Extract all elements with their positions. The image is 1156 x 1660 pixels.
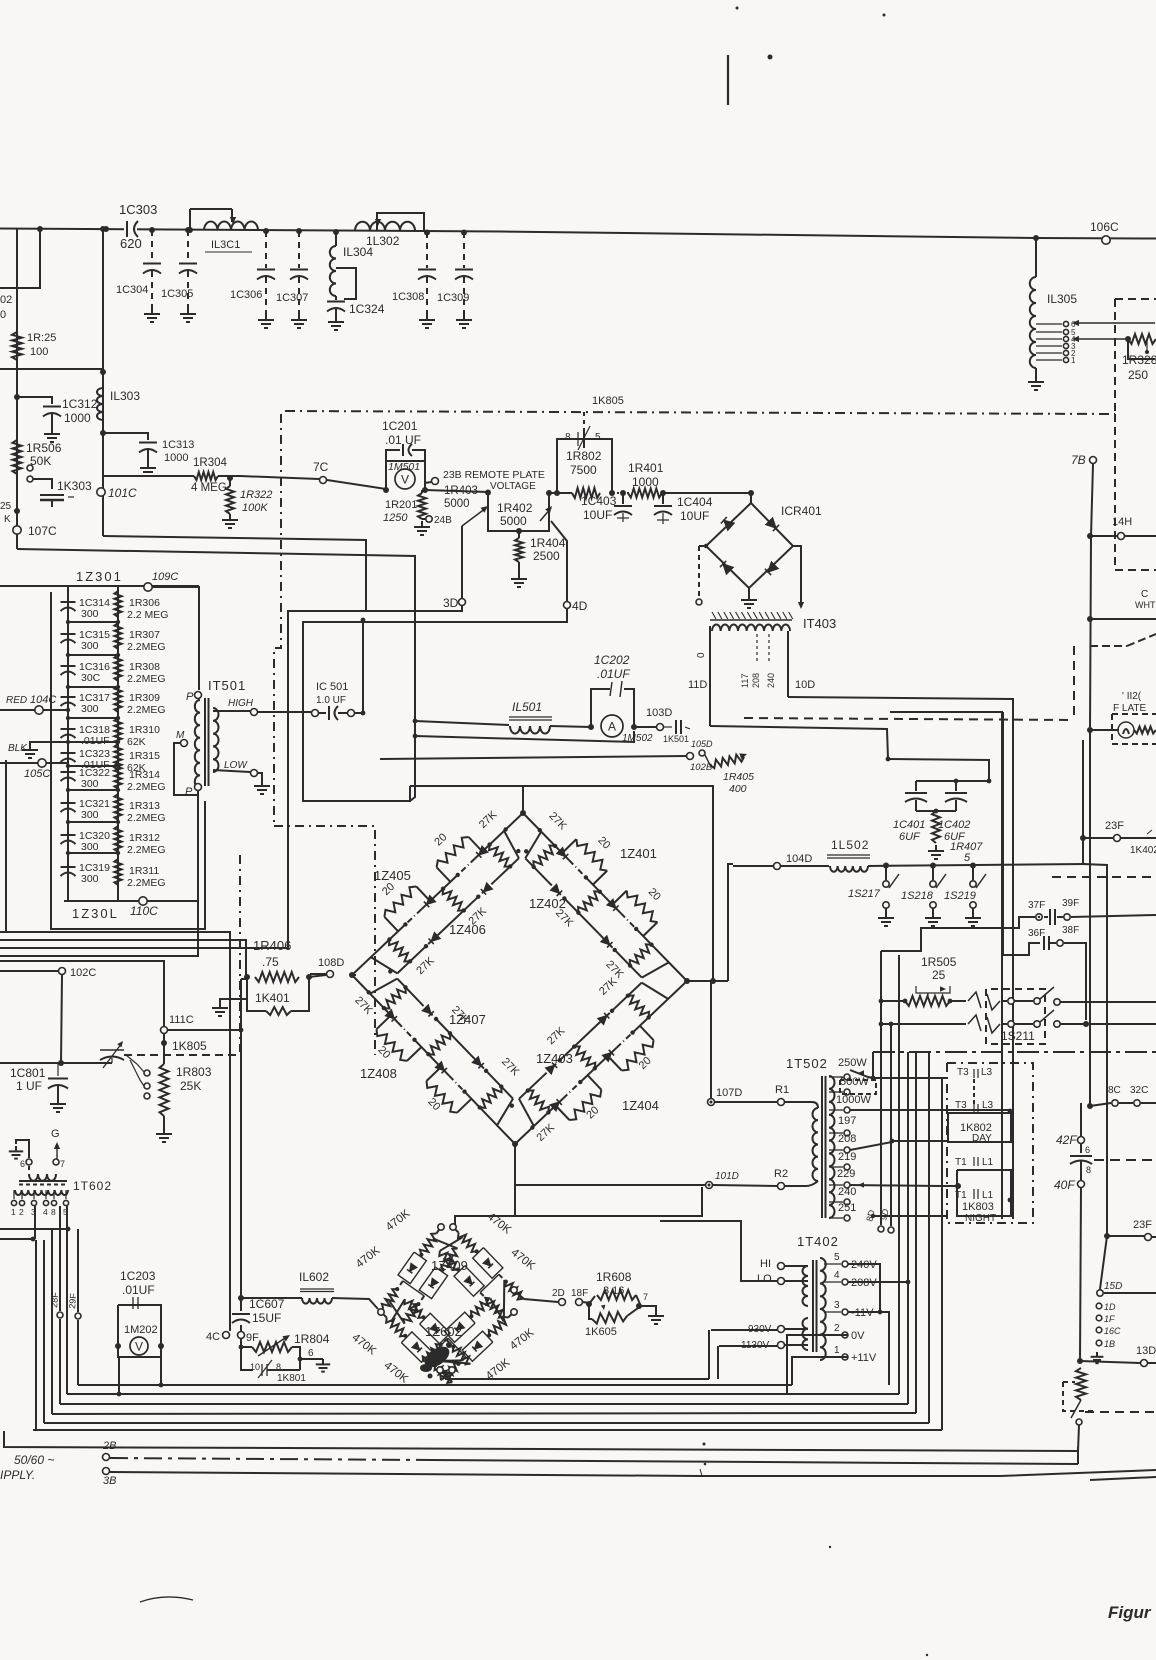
page speck [703,1443,929,1657]
diode ICR401 d4 [765,562,778,575]
wire diamond bottom [514,1144,516,1216]
wire 1T602 core [19,1181,67,1185]
wire main y493b [549,492,572,494]
svg-text:1C401: 1C401 [893,819,925,831]
svg-text:104D: 104D [786,853,812,865]
wire cap box [916,779,991,791]
wire 8C line [1090,1100,1156,1106]
wire y476 to 7C [240,476,386,489]
terminal R2 [774,1168,788,1190]
capacitor 1C316 [61,661,111,684]
capacitor 1C312 [43,397,98,428]
svg-text:1.0 UF: 1.0 UF [316,695,346,706]
wire 23F low [1107,1219,1156,1241]
svg-text:3B: 3B [103,1475,116,1487]
svg-text:1000: 1000 [164,452,188,464]
resistor 1R323 [12,332,56,360]
wire 1C324 bypass [336,268,356,299]
wire left vert x103 [102,229,104,433]
wire 930V riser [708,1330,710,1379]
wire 42F riser [1080,1103,1082,1136]
terminal 1T502 tap 229 [829,1168,855,1188]
diode ICR401 d3 [720,561,733,574]
capacitor 1K501 [663,720,690,744]
wire vert x942 [941,1078,943,1430]
svg-text:C: C [1141,589,1148,600]
resistor 1R407 [932,811,983,864]
wire corner 2B [1077,1447,1079,1464]
svg-text:3.16: 3.16 [603,1285,624,1297]
junction dot [1080,835,1086,841]
wire ladder rung [68,852,118,854]
label 1Z406 [449,922,486,937]
svg-text:1R505: 1R505 [921,955,957,969]
wire 37F down [880,951,882,1001]
label 470K [508,1326,537,1352]
potentiometer 1R506 [13,440,62,474]
ground 1R322 [222,514,238,528]
terminal 37F [1028,900,1045,920]
svg-text:1L502: 1L502 [831,838,869,852]
wire vert x1083 [1083,740,1107,1289]
junction dot [1083,1021,1089,1027]
wire 208V link [848,1280,910,1285]
svg-text:105D: 105D [691,739,713,749]
capacitor 1C401 [905,793,927,811]
svg-text:0: 0 [0,309,6,321]
terminal 40F [1054,1178,1085,1192]
trimmer 1K801 [241,1347,306,1384]
resistor bleeder [1076,1368,1086,1400]
svg-text:1M202: 1M202 [124,1324,158,1336]
svg-text:2500: 2500 [533,549,560,563]
wire -11V link [848,1310,889,1385]
junction dot [66,653,120,657]
meter 1M202 box [118,1298,161,1357]
ground 1S218 [925,912,941,926]
terminal 1T502 tap 240 [829,1186,856,1205]
svg-text:250: 250 [1128,368,1148,382]
terminal 1T502 tap 219 [829,1151,856,1170]
terminal LO [757,1273,808,1285]
terminal M [176,730,188,747]
wire 1K805 dashed bus [285,395,1115,414]
svg-text:1Z409: 1Z409 [431,1258,468,1273]
wire dashed stub 1C309 [463,232,465,268]
svg-text:2B: 2B [102,1440,116,1452]
svg-text:1R201: 1R201 [385,499,417,511]
wire 109C to P [152,587,199,690]
capacitor 1C324 [327,296,385,316]
svg-text:2.2MEG: 2.2MEG [127,704,166,716]
wire 38F out [1064,943,1086,1020]
terminal 103D [646,707,672,731]
label 1Z405 [374,868,411,883]
label 1S219 [944,890,976,902]
inductor IL302 [355,222,415,231]
svg-text:1R311: 1R311 [129,865,159,877]
capacitor 1C404 [654,493,713,524]
svg-text:1C201: 1C201 [382,419,418,433]
wire 39F out [1071,915,1156,917]
resistor 1K605 [585,1304,638,1338]
junction dot [1087,533,1093,1109]
svg-text:1R304: 1R304 [193,457,227,469]
junction dot [660,490,666,496]
wire 2B [110,1458,1078,1464]
terminal 1T602 tap 4 [43,1190,49,1217]
svg-text:62K: 62K [127,736,146,748]
svg-text:240: 240 [838,1186,856,1198]
svg-text:1C305: 1C305 [161,288,193,300]
svg-text:IL3C1: IL3C1 [211,239,240,251]
wire 3D down [0,606,462,948]
junction dot [296,228,302,234]
wire main y493d [663,492,751,494]
transformer 1T602 primary [15,1190,68,1195]
junction dot [37,226,43,232]
wire y369 bus [0,368,103,370]
svg-text:1R803: 1R803 [176,1065,212,1079]
wire 10D [788,697,1013,1219]
terminal 1T602 tap 8 [51,1190,57,1217]
wire sd right out [517,1293,558,1302]
svg-text:1Z408: 1Z408 [360,1066,397,1081]
resistor 1R404 [515,531,566,563]
terminal RED 104C [0,694,70,714]
terminal 1T402 tap 5 [824,1252,877,1271]
wire LO feed [660,1221,777,1281]
svg-text:6: 6 [20,1159,25,1169]
wire 0V link [787,1335,848,1393]
svg-text:BLK: BLK [8,743,28,754]
svg-text:1K605: 1K605 [585,1326,617,1338]
svg-text:T3: T3 [957,1067,969,1078]
terminal 23B [425,478,439,485]
svg-text:R2: R2 [774,1168,788,1180]
junction dot [955,1183,961,1189]
junction dot [66,740,120,744]
resistor 1R328 [1128,334,1156,359]
label 1C306 [230,289,262,301]
wire 10Db [890,712,1002,1219]
wire 8D line [871,1214,947,1218]
wire diamond top [523,786,713,981]
svg-text:5: 5 [964,852,971,864]
terminal 8D 9D [864,1207,894,1233]
svg-text:8: 8 [565,432,571,443]
terminal 101D [706,1171,739,1189]
svg-text:10UF: 10UF [583,508,612,522]
junction dot [66,851,120,855]
svg-text:50K: 50K [30,454,51,468]
terminal 7B [1071,453,1097,467]
junction dot [14,508,20,514]
junction dot [586,1301,592,1307]
terminal 107D [708,1087,743,1106]
svg-text:VOLTAGE: VOLTAGE [490,481,536,492]
wire ladder box [51,592,205,929]
junction dot [58,1060,64,1066]
resistor 1R315 [114,744,160,774]
wire 1C201 loop [386,450,425,461]
svg-text:1Z403: 1Z403 [536,1051,573,1066]
wire 104D to coil [781,865,829,867]
junction dot [930,863,936,869]
varistor network 1Z602 a [381,1299,471,1383]
label 1Z602 [425,1324,462,1339]
wire 1K805 stub [583,412,585,430]
svg-text:4: 4 [43,1207,48,1217]
wire y726 line [415,721,509,725]
svg-text:+11V: +11V [851,1352,877,1364]
svg-text:1Z602: 1Z602 [425,1324,462,1339]
svg-text:36F: 36F [1028,928,1045,939]
terminal 1T402 tap 4 [824,1270,877,1289]
wire bus L5 [44,1422,929,1424]
wire tap500 dashed box [840,1080,876,1094]
capacitor 1C501 [312,681,355,720]
terminal BLK 105C [0,743,68,780]
label 1T402 [797,1234,839,1249]
svg-text:1R405: 1R405 [723,771,754,783]
potentiometer 1R402 arrow [540,506,552,521]
svg-text:1Z402: 1Z402 [529,896,566,911]
label 1C401 [893,819,925,843]
terminal 1T602 tap 2 [19,1190,25,1217]
wire bus L2 [67,1393,899,1395]
capacitor 1C203 [120,1269,156,1312]
wire 1K805 dash [124,1039,238,1055]
capacitor 1C309 [455,270,473,315]
inductor IL305 [1030,238,1036,368]
svg-text:M: M [176,730,185,741]
wire x17 bottom [16,534,18,549]
svg-text:NIGHT: NIGHT [965,1213,996,1224]
terminal 102D [687,753,713,774]
svg-text:37F: 37F [1028,900,1045,911]
wire vert x52 [51,1230,53,1414]
svg-text:1C309: 1C309 [437,292,469,304]
terminal sd top [438,1224,456,1230]
wire vert x44 [43,1240,45,1423]
varistor network 1Z409 b [439,1227,522,1318]
svg-text:1000: 1000 [632,475,659,489]
wire dash linkage c [239,855,241,1052]
svg-text:1C404: 1C404 [677,495,713,509]
svg-text:1D: 1D [1104,1302,1116,1312]
wire tap3 drop [33,1206,35,1430]
terminal 29F [67,1292,81,1319]
svg-text:13D: 13D [1136,1345,1156,1357]
rectifier ICR401 [706,503,822,588]
capacitor 1C322 [61,767,111,790]
wire dash box top [1052,876,1156,878]
wire sd bottom down [446,1370,709,1379]
svg-text:5000: 5000 [500,514,527,528]
svg-text:4C: 4C [206,1331,220,1343]
label 50/60 [0,1453,54,1482]
svg-text:1R308: 1R308 [129,661,160,673]
wire dash linkage b [274,826,375,1055]
svg-text:300: 300 [81,778,99,790]
junction dot [185,227,191,233]
label 1Z402 [529,896,566,911]
terminal 24B [422,515,452,526]
svg-text:107D: 107D [716,1087,742,1099]
svg-text:WHT: WHT [1135,600,1156,610]
svg-text:251: 251 [838,1202,856,1214]
ground 1C801 [50,1098,66,1112]
svg-text:6: 6 [308,1348,314,1359]
label 1C305 [161,288,193,300]
terminal 1T602 tap 3 [31,1190,37,1217]
wire y1063 [0,1062,112,1064]
svg-text:1C307: 1C307 [276,292,308,304]
meter 1M501 [395,469,415,489]
junction dot [424,230,430,236]
terminal IL305 tap 2 [1036,349,1076,358]
wire P down [0,795,198,956]
resistor 1R309 [114,686,165,716]
svg-text:LO: LO [757,1273,772,1285]
wire y1052 bus [873,1051,1156,1053]
diode ICR401 d2 [766,518,779,531]
relay 1K802 box [948,1113,1011,1144]
junction dot [100,369,106,375]
potentiometer 1R403 arrow [462,506,488,526]
svg-text:101D: 101D [715,1171,739,1182]
ground 1T602 6 [9,1140,29,1159]
transformer 1T502 secondary [829,1076,835,1218]
capacitor 1C307 [290,270,308,315]
resistor 1R310 [114,718,160,748]
svg-text:.75: .75 [262,955,279,969]
svg-text:1K401: 1K401 [255,991,290,1005]
ground 1R804 [300,1359,330,1372]
svg-text:23F: 23F [1105,820,1124,832]
svg-text:7C: 7C [313,460,329,474]
wire ladder rung [68,621,118,623]
resistor 1R308 [114,655,165,685]
svg-text:1Z405: 1Z405 [374,868,411,883]
wire 2B up [1077,1447,1079,1464]
wire 1T501 core [205,698,209,786]
svg-text:23B REMOTE PLATE: 23B REMOTE PLATE [443,469,545,481]
wire vert x60a [59,1206,61,1311]
relay 1K401 box [247,977,309,1015]
wire cap join [916,809,956,814]
svg-text:1R406: 1R406 [253,938,291,953]
svg-text:1R804: 1R804 [294,1332,330,1346]
label 11D [688,679,707,691]
junction dot [66,788,120,792]
terminal sd left [378,1309,384,1315]
terminal 1T502 tap 208 [829,1133,856,1153]
svg-text:IT403: IT403 [803,616,836,631]
lamp box dashed [1112,714,1156,744]
potentiometer 1R804 [241,1332,330,1359]
wire nest b [0,940,246,977]
wire right seg [1090,1477,1156,1480]
svg-text:4: 4 [834,1270,840,1281]
svg-text:2.2MEG: 2.2MEG [127,781,166,793]
wire bus L6 [33,1429,942,1431]
terminal 1R803 taps [127,1052,150,1099]
svg-text:102C: 102C [70,967,96,979]
label 1M501 [388,461,420,473]
terminal 109C [144,571,179,591]
svg-text:40F: 40F [1054,1178,1075,1192]
wire vert x1086 [1085,460,1087,864]
transformer 1T403 top winding [712,624,790,631]
wire ladder rung [68,686,118,688]
label 8C 32C [1108,1085,1148,1096]
terminal 1B [1096,1339,1115,1349]
junction dot [149,227,155,233]
wire tap208 link [850,1142,892,1150]
junction dot [710,978,716,984]
capacitor 42F-40F [1070,1144,1092,1180]
wire 250W cross [873,1077,947,1079]
svg-text:HI: HI [760,1258,771,1270]
ground 1C313 [140,462,156,476]
terminal 108D [310,957,356,978]
capacitor 1C203 sym [130,1297,143,1309]
capacitor 1C303 [119,202,157,251]
wire vert x891 [890,1024,892,1226]
label 1Z404 [622,1098,659,1113]
svg-text:4 MEG: 4 MEG [191,482,227,494]
label 470K [485,1211,514,1237]
spark gap row2 [950,1015,1007,1033]
wire 1130V riser [717,1346,719,1379]
resistor 1R405 [705,753,754,795]
svg-text:1C304: 1C304 [116,284,148,296]
svg-text:.01UF: .01UF [597,667,630,681]
terminal IL305 tap 4 [1036,335,1076,344]
capacitor 1C607 [240,979,242,1310]
junction dot [970,863,976,869]
label 1Z407 [449,1012,486,1027]
wire dash linkage a [274,414,281,826]
wire ladder right col [117,586,119,901]
svg-text:300: 300 [81,809,99,821]
junction dot [66,620,120,624]
capacitor T1L1 b [955,1189,1012,1202]
terminal 1T402 tap 3 [824,1300,874,1319]
terminal LOW [251,770,258,777]
wire dashed stub 1C305 [187,230,189,262]
potentiometer 1R505 [916,955,957,998]
resistor box dashed [1063,1382,1094,1411]
junction dot [748,490,754,496]
transformer 1T501 primary [195,700,200,788]
wire tap229 link [850,1182,940,1187]
svg-text:300: 300 [81,841,99,853]
svg-text:8: 8 [276,1362,281,1372]
capacitor T3L3 b [955,1100,1012,1113]
switch 1S217 [883,865,899,912]
wire left vert x103b [102,433,104,536]
junction dot [115,1343,164,1349]
wire row1 left [879,999,905,1004]
svg-text:107C: 107C [28,524,57,538]
svg-text:39F: 39F [1062,898,1079,909]
wire IL305 tap6 arrow [1072,320,1155,326]
svg-text:24B: 24B [434,515,452,526]
junction dot [100,430,106,436]
